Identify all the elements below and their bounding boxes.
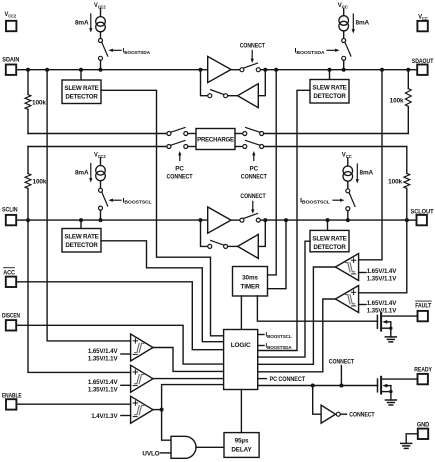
label threshold comp3 — [91, 413, 130, 420]
label IBOOSTSDA output — [258, 343, 293, 350]
buffer SCL forward — [208, 207, 231, 233]
svg-text:PRECHARGE: PRECHARGE — [197, 137, 234, 144]
wire SDA reverse path left — [201, 70, 208, 96]
svg-text:DELAY: DELAY — [231, 446, 252, 453]
svg-text:IBOOSTSDA: IBOOSTSDA — [295, 48, 326, 55]
wire AND output to delay — [196, 446, 224, 448]
label PC CONNECT left with arrow — [167, 151, 193, 180]
wire comp3 output node — [153, 408, 164, 412]
wire logic to READY gate — [258, 384, 378, 388]
label IBOOSTSCL output — [258, 332, 292, 339]
slew rate detector SDA-out — [310, 70, 349, 103]
ENABLE pin — [2, 392, 22, 409]
wire compR1 output to logic — [258, 267, 336, 364]
svg-text:DETECTOR: DETECTOR — [65, 242, 98, 249]
wire timer to logic — [240, 296, 242, 330]
svg-text:UVLO: UVLO — [142, 450, 159, 457]
wire slew SCL-out output — [258, 241, 310, 357]
wire precharge rail SDA-in — [28, 133, 167, 135]
wire comp3 to logic — [162, 385, 224, 410]
wire precharge box rail2 right — [235, 146, 243, 148]
svg-text:CONNECT: CONNECT — [167, 173, 193, 180]
slew rate detector SCL-in — [62, 220, 101, 252]
svg-text:DETECTOR: DETECTOR — [313, 244, 346, 251]
ACC pin (active low) — [3, 268, 16, 287]
label PC CONNECT output — [258, 376, 306, 383]
wire slew SDA-out output — [258, 90, 310, 350]
SDA bus wire (SDAOUT side) — [260, 69, 408, 71]
wire to precharge box rail1 — [188, 133, 196, 135]
svg-text:DETECTOR: DETECTOR — [65, 93, 98, 100]
ground (FAULT source) — [385, 337, 396, 342]
comparator SDA stuck detect — [131, 334, 153, 361]
switch IBOOSTSCL (output side) — [346, 189, 355, 220]
svg-text:ENABLE: ENABLE — [2, 392, 22, 399]
buffer SDA reverse — [238, 84, 259, 108]
wire SCL monitor to timer — [268, 220, 287, 289]
block 95us DELAY — [224, 433, 259, 458]
svg-text:VCC2: VCC2 — [5, 11, 17, 18]
label thresholds compR1 — [359, 268, 398, 283]
wire SCLIN to comparator — [28, 220, 131, 372]
svg-text:8mA: 8mA — [75, 20, 89, 27]
svg-text:8mA: 8mA — [360, 170, 374, 177]
wire buffer output to switch (SCL) — [231, 219, 240, 221]
buffer SCL reverse — [238, 234, 259, 258]
switch PC CONNECT rail2 right — [243, 141, 264, 149]
label thresholds compR2 — [359, 300, 398, 315]
wire SDAIN to comparator — [47, 70, 131, 341]
svg-text:1.35V/1.1V: 1.35V/1.1V — [88, 355, 119, 362]
transistor FAULT pull-down — [377, 313, 417, 337]
svg-text:IBOOSTSCL: IBOOSTSCL — [266, 332, 292, 339]
svg-text:1.35V/1.1V: 1.35V/1.1V — [88, 387, 119, 394]
wire switch to reverse buffer (SCL) — [228, 245, 238, 247]
wire SDA monitor to timer — [268, 70, 277, 275]
label IBOOSTSDA with arrow (input side) — [109, 48, 151, 55]
wire DISCEN to logic — [16, 325, 223, 364]
svg-text:1.65V/1.4V: 1.65V/1.4V — [88, 348, 119, 355]
wire slew SCL-in output — [101, 241, 224, 342]
SCLOUT pin — [407, 208, 434, 225]
precharge block — [196, 129, 235, 150]
GND pin — [417, 421, 430, 439]
DISCEN pin — [2, 313, 20, 331]
wire comp3 to AND gate — [162, 410, 171, 441]
SDA bus wire (SDAIN side) — [28, 69, 208, 71]
READY pin — [414, 367, 432, 385]
wire ACC to logic — [16, 282, 223, 350]
svg-text:1.65V/1.4V: 1.65V/1.4V — [88, 379, 119, 386]
switch SCL reverse — [208, 240, 228, 248]
SDAIN pin — [2, 57, 28, 75]
svg-text:CONNECT: CONNECT — [241, 173, 267, 180]
wire comp1 output to logic — [153, 348, 224, 372]
svg-text:ACC: ACC — [3, 269, 15, 276]
block 30ms TIMER — [233, 267, 268, 297]
label IBOOSTSCL with arrow (output side) — [300, 197, 345, 204]
SCL bus wire (SCLIN side) — [28, 219, 208, 221]
switch PC CONNECT rail2 left — [167, 141, 188, 149]
current source 8mA (SCL output side) — [342, 152, 374, 189]
comparator SCLOUT stuck detect — [335, 286, 358, 313]
svg-text:8mA: 8mA — [356, 20, 370, 27]
current source 8mA (SCL input side) — [75, 152, 106, 189]
svg-text:SDAIN: SDAIN — [2, 57, 19, 64]
label UVLO — [142, 450, 171, 457]
transistor READY pull-down — [378, 377, 418, 400]
svg-text:LOGIC: LOGIC — [231, 342, 251, 349]
wire slew SDA-in output — [101, 90, 224, 335]
wire switch to reverse buffer — [228, 95, 238, 97]
resistor 100k SCLIN — [25, 147, 47, 221]
switch PC CONNECT rail1 right — [243, 128, 264, 136]
label IBOOSTSCL with arrow (input side) — [109, 197, 152, 204]
wire compR2 output to logic — [258, 299, 336, 372]
switch PC CONNECT rail1 left — [167, 128, 188, 136]
svg-text:100k: 100k — [388, 179, 402, 186]
resistor 100k SCLOUT — [388, 147, 410, 221]
label CONNECT with arrow (SCL) — [240, 193, 265, 214]
svg-text:30ms: 30ms — [242, 275, 258, 282]
wire buffer output to switch — [231, 69, 240, 71]
wire precharge rail SDA-out — [264, 133, 409, 135]
svg-text:1.65V/1.4V: 1.65V/1.4V — [367, 268, 398, 275]
SCLIN pin — [2, 207, 28, 226]
resistor 100k SDAIN pull-up — [25, 70, 46, 134]
wire SDAOUT to comparator — [359, 70, 382, 260]
wire logic to delay — [240, 390, 242, 433]
svg-text:SLEW RATE: SLEW RATE — [64, 85, 98, 92]
svg-text:SCLIN: SCLIN — [2, 207, 18, 214]
svg-text:100k: 100k — [390, 98, 404, 105]
svg-text:DETECTOR: DETECTOR — [313, 93, 346, 100]
buffer SDA forward — [208, 56, 231, 82]
wire precharge box rail1 right — [235, 133, 243, 135]
svg-text:95µs: 95µs — [235, 438, 249, 445]
label CONNECT with arrow (SDA) — [240, 42, 265, 63]
svg-text:SLEW RATE: SLEW RATE — [64, 234, 98, 241]
svg-text:VCC: VCC — [418, 14, 428, 21]
wire SCL reverse path left — [201, 220, 208, 246]
current source 8mA (SDA output side) — [338, 2, 370, 39]
switch IBOOSTSDA (output side) — [342, 39, 351, 70]
svg-text:READY: READY — [414, 367, 432, 374]
switch CONNECT SDA — [240, 63, 260, 72]
svg-text:100k: 100k — [33, 179, 47, 186]
svg-text:TIMER: TIMER — [240, 284, 260, 291]
label CONNECT (inverter output) — [341, 412, 375, 419]
svg-text:100k: 100k — [32, 100, 46, 107]
slew rate detector SDA-in — [62, 70, 101, 104]
svg-text:IBOOSTSDA: IBOOSTSDA — [266, 343, 293, 350]
svg-text:CONNECT: CONNECT — [349, 412, 374, 419]
svg-text:PC CONNECT: PC CONNECT — [270, 376, 306, 383]
wire precharge rail SCL-out — [264, 146, 407, 148]
wire precharge rail SCL-in — [28, 146, 167, 148]
svg-text:PC: PC — [175, 166, 184, 173]
wire to precharge box rail2 — [188, 146, 196, 148]
GND wire and ground symbol — [401, 434, 418, 449]
FAULT pin (active low) — [415, 301, 431, 321]
svg-text:FAULT: FAULT — [415, 303, 431, 310]
wire comp2 output to logic — [153, 378, 224, 380]
switch IBOOSTSCL (input side) — [99, 188, 108, 220]
wire SCLOUT to comparator — [359, 220, 407, 293]
switch CONNECT SCL — [240, 214, 260, 223]
slew rate detector SCL-out — [310, 220, 349, 252]
svg-text:1.35V/1.1V: 1.35V/1.1V — [367, 276, 398, 283]
comparator SCL stuck detect — [131, 365, 153, 392]
resistor 100k SDAOUT — [390, 70, 412, 134]
VCC2 pin (top left) — [5, 11, 17, 31]
block LOGIC — [224, 330, 258, 390]
gate AND (UVLO) — [171, 436, 196, 458]
svg-text:SLEW RATE: SLEW RATE — [312, 85, 346, 92]
wire SDA reverse buffer input — [258, 70, 265, 96]
SDAOUT pin — [408, 58, 433, 75]
svg-text:GND: GND — [417, 421, 430, 428]
svg-text:CONNECT: CONNECT — [240, 193, 265, 200]
svg-text:PC: PC — [250, 166, 259, 173]
wire to inverter — [313, 386, 321, 415]
node SCLIN junction dots — [26, 218, 203, 222]
svg-text:1.4V/1.3V: 1.4V/1.3V — [91, 413, 118, 420]
svg-text:IBOOSTSCL: IBOOSTSCL — [123, 197, 152, 204]
wire SCL reverse buffer input — [258, 220, 265, 246]
wire timer to FAULT gate — [257, 296, 377, 321]
current source 8mA (SDA input side) — [75, 2, 106, 39]
inverter CONNECT driver — [321, 405, 340, 423]
wire ENABLE to comparator — [16, 403, 130, 405]
node SDAIN junction dots — [26, 68, 203, 72]
svg-text:IBOOSTSDA: IBOOSTSDA — [123, 48, 151, 55]
switch IBOOSTSDA (input side) — [99, 39, 108, 70]
svg-text:SLEW RATE: SLEW RATE — [312, 236, 346, 243]
label CONNECT node — [329, 358, 354, 385]
SCL bus wire (SCLOUT side) — [260, 219, 407, 221]
VCC pin (top right) — [417, 14, 428, 32]
ground (READY source) — [385, 400, 396, 405]
label thresholds comp1 — [88, 348, 131, 363]
svg-text:CONNECT: CONNECT — [329, 358, 354, 365]
node SDAOUT junction dots — [263, 68, 410, 72]
label thresholds comp2 — [88, 379, 131, 394]
svg-text:8mA: 8mA — [75, 170, 89, 177]
label PC CONNECT right with arrow — [241, 151, 267, 180]
svg-text:1.65V/1.4V: 1.65V/1.4V — [367, 300, 398, 307]
comparator ENABLE threshold — [131, 396, 153, 423]
svg-text:DISCEN: DISCEN — [2, 313, 20, 320]
svg-text:IBOOSTSCL: IBOOSTSCL — [300, 197, 330, 204]
node SCLOUT junction dots — [263, 218, 409, 222]
svg-text:CONNECT: CONNECT — [240, 42, 265, 49]
label IBOOSTSDA with arrow (output side) — [295, 48, 340, 55]
switch SDA reverse — [208, 90, 228, 98]
comparator SDAOUT stuck detect — [335, 254, 358, 281]
